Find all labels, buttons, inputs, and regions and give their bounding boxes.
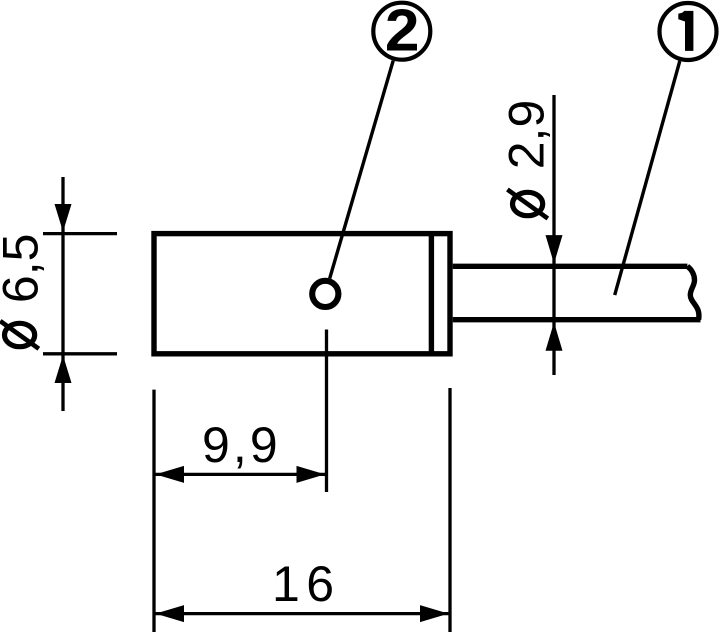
svg-text:9,9: 9,9: [202, 417, 278, 473]
svg-text:2: 2: [385, 0, 420, 63]
svg-text:2,9: 2,9: [499, 100, 555, 170]
svg-text:6,5: 6,5: [0, 234, 49, 304]
